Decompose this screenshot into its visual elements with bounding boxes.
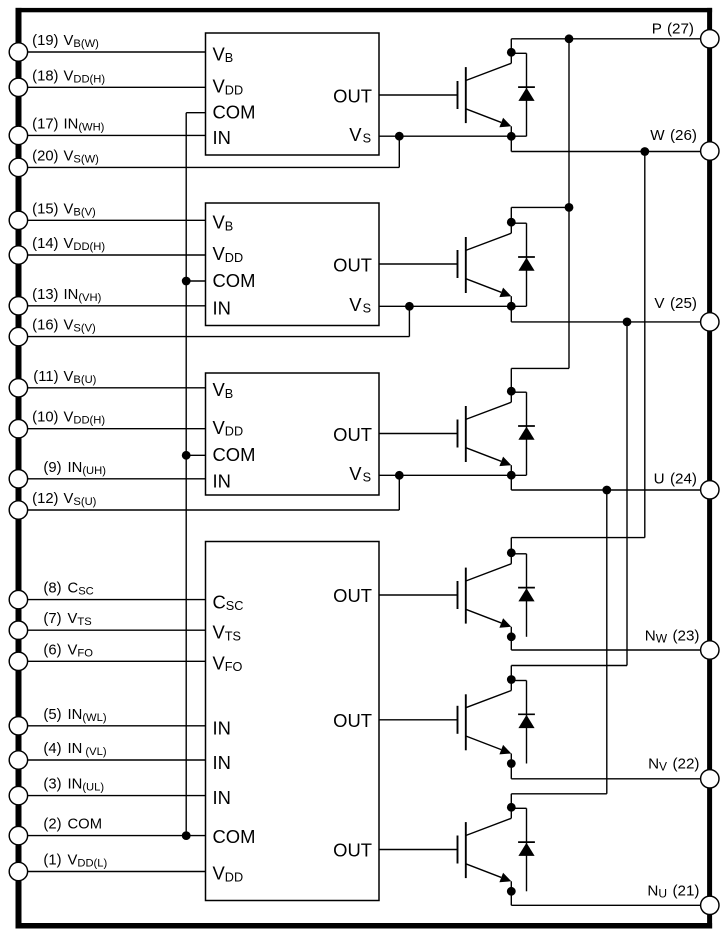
wire VB(V) lead (28, 219, 206, 221)
terminal pin 11 VB(U) (9, 379, 27, 397)
wire P bus drop (568, 39, 570, 369)
label pin 7 VTS (43, 611, 91, 628)
wire pin 4 lead (28, 759, 206, 761)
node W phase junction (640, 147, 649, 156)
svg-text:OUT: OUT (333, 585, 372, 606)
svg-text:(3): (3) (43, 777, 61, 793)
svg-text:(20): (20) (32, 148, 58, 164)
svg-text:(7): (7) (43, 611, 61, 627)
terminal pin 25 V (701, 313, 719, 331)
wire VS(V) lead (28, 336, 410, 338)
wire VS(W) riser (398, 136, 400, 167)
driver block U3 (U-phase high-side) (206, 373, 380, 495)
node COM bus to pin 2 junction (182, 831, 191, 840)
label pin 8 CSC (43, 581, 93, 598)
svg-text:(12): (12) (32, 491, 58, 507)
terminal pin 23 NW (701, 641, 719, 659)
svg-text:V (25): V (25) (654, 295, 697, 312)
label pin 14 VDD(H) (32, 236, 105, 253)
node COM bus junction (182, 277, 191, 286)
wire VDD(H) lead (28, 254, 206, 256)
driver block U1 (W-phase high-side) (206, 33, 380, 155)
terminal pin 6 VFO (9, 652, 27, 670)
label pin 4 IN (VL) (43, 741, 106, 758)
collector node of Q2 (507, 218, 516, 227)
terminal pin 2 COM (9, 826, 27, 844)
label pin 10 VDD(H) (32, 410, 105, 427)
svg-text:W (26): W (26) (650, 127, 697, 144)
terminal pin 19 VB(W) (9, 43, 27, 61)
wire VS of driver U2 to emitter of Q2 (379, 305, 527, 307)
label pin 13 IN(VH) (32, 287, 101, 304)
wire VB(U) lead (28, 387, 206, 389)
collector node of Q6 (507, 803, 516, 812)
node VS(W) junction (395, 132, 404, 141)
label pin 2 COM (43, 817, 102, 833)
collector node of Q3 (507, 387, 516, 396)
svg-text:(1): (1) (43, 853, 61, 869)
wire U phase drop to low-side collector (606, 490, 608, 794)
svg-text:(9): (9) (43, 460, 61, 476)
wire V phase drop to low-side collector (626, 322, 628, 666)
svg-text:(4): (4) (43, 741, 61, 757)
svg-text:IN: IN (213, 298, 231, 319)
wire NU output (511, 904, 700, 906)
wire COM of driver U3 to COM bus (186, 454, 205, 456)
svg-text:(11): (11) (33, 369, 58, 385)
wire P bus to Q3 collector (511, 367, 569, 369)
wire VS(U) riser (398, 475, 400, 510)
svg-text:(5): (5) (43, 707, 61, 723)
svg-text:(19): (19) (32, 33, 58, 49)
svg-text:IN: IN (213, 752, 231, 773)
wire VDD(H) lead (28, 86, 206, 88)
svg-text:(16): (16) (32, 318, 58, 334)
wire W phase drop to low-side collector (644, 152, 646, 538)
label pin 3 IN(UL) (43, 777, 104, 794)
wire U phase from Q3 emitter (510, 475, 512, 490)
svg-text:S: S (363, 302, 371, 316)
svg-text:OUT: OUT (333, 840, 372, 861)
svg-text:S: S (363, 471, 371, 485)
node P bus junction (565, 34, 574, 43)
label pin 5 IN(WL) (43, 707, 106, 724)
svg-text:IN: IN (213, 471, 231, 492)
label pin 16 VS(V) (32, 318, 96, 335)
wire OUT of driver U2 to gate of Q2 (379, 263, 458, 265)
wire OUT of driver U4 to gate of Q4 (379, 594, 458, 596)
wire OUT of driver U4 to gate of Q5 (379, 719, 458, 721)
wire OUT of driver U3 to gate of Q3 (379, 433, 458, 435)
terminal pin 16 VS(V) (9, 327, 27, 345)
transistor Q4 (458, 538, 512, 637)
wire pin 8 lead (28, 599, 206, 601)
node P bus to Q2 junction (565, 203, 574, 212)
svg-text:COM: COM (213, 270, 256, 291)
terminal pin 17 IN(WH) (9, 126, 27, 144)
svg-text:COM: COM (213, 826, 256, 847)
wire NV from Q5 emitter (510, 764, 512, 779)
wire VS(W) lead (28, 166, 400, 168)
terminal pin 10 VDD(H) (9, 420, 27, 438)
svg-text:IN: IN (213, 718, 231, 739)
wire VS of driver U1 to emitter of Q1 (379, 135, 527, 137)
collector node of Q5 (507, 675, 516, 684)
svg-text:IN: IN (213, 127, 231, 148)
svg-text:NW (23): NW (23) (645, 628, 700, 646)
wire U phase output (511, 489, 700, 491)
svg-text:NV (22): NV (22) (648, 756, 699, 774)
svg-text:V: V (349, 124, 362, 145)
svg-text:(18): (18) (32, 68, 58, 84)
wire IN(UH) lead (28, 478, 206, 480)
node V phase junction (623, 318, 632, 327)
wire COM of driver U1 to COM bus (186, 112, 205, 114)
label pin 18 VDD(H) (32, 68, 105, 85)
terminal pin 14 VDD(H) (9, 246, 27, 264)
terminal pin 20 VS(W) (9, 158, 27, 176)
diode D6 (511, 808, 535, 891)
wire COM of driver U2 to COM bus (186, 280, 205, 282)
terminal pin 22 NV (701, 770, 719, 788)
svg-text:V: V (349, 294, 362, 315)
terminal pin 4 IN (VL) (9, 751, 27, 769)
terminal pin 18 VDD(H) (9, 78, 27, 96)
svg-text:(15): (15) (32, 201, 58, 217)
label pin 15 VB(V) (32, 201, 96, 218)
wire NV output (511, 778, 700, 780)
wire VS of driver U3 to emitter of Q3 (379, 474, 527, 476)
terminal pin 8 CSC (9, 590, 27, 608)
label pin 11 VB(U) (33, 369, 96, 386)
svg-text:S: S (363, 132, 371, 146)
wire V phase output (511, 321, 700, 323)
wire pin 2 lead (28, 835, 206, 837)
driver block U4 (low-side) (206, 542, 380, 901)
terminal pin 3 IN(UL) (9, 786, 27, 804)
terminal pin 24 U (701, 481, 719, 499)
svg-text:COM: COM (213, 102, 256, 123)
label pin 17 IN(WH) (32, 116, 105, 133)
node VS(V) junction (405, 302, 414, 311)
svg-text:(17): (17) (32, 116, 58, 132)
svg-text:OUT: OUT (333, 710, 372, 731)
label pin 1 VDD(L) (43, 853, 107, 870)
svg-text:OUT: OUT (333, 424, 372, 445)
svg-text:U (24): U (24) (654, 471, 697, 488)
emitter node of Q4 (507, 632, 516, 641)
svg-text:P (27): P (27) (652, 21, 694, 38)
transistor Q5 (458, 666, 512, 764)
wire pin 3 lead (28, 795, 206, 797)
terminal pin 21 NU (701, 896, 719, 914)
node VS(U) junction (395, 471, 404, 480)
terminal pin 9 IN(UH) (9, 470, 27, 488)
wire VS(U) lead (28, 509, 400, 511)
wire VDD(H) lead (28, 428, 206, 430)
wire pin 5 lead (28, 725, 206, 727)
emitter node of Q6 (507, 887, 516, 896)
svg-text:(6): (6) (43, 642, 61, 658)
wire P bus (511, 38, 700, 40)
svg-text:V: V (349, 463, 362, 484)
terminal pin 26 W (701, 142, 719, 160)
terminal pin 13 IN(VH) (9, 297, 27, 315)
wire COM bus vertical (185, 113, 187, 836)
svg-text:OUT: OUT (333, 85, 372, 106)
label pin 12 VS(U) (32, 491, 96, 508)
wire NU from Q6 emitter (510, 891, 512, 905)
driver block U2 (V-phase high-side) (206, 203, 380, 326)
terminal pin 15 VB(V) (9, 211, 27, 229)
svg-text:COM: COM (68, 817, 103, 833)
wire pin 7 lead (28, 629, 206, 631)
transistor Q3 (458, 368, 512, 475)
svg-text:COM: COM (213, 444, 256, 465)
node COM bus junction (182, 451, 191, 460)
wire W phase output (511, 151, 700, 153)
terminal pin 5 IN(WL) (9, 717, 27, 735)
label pin 6 VFO (43, 642, 93, 659)
wire pin 1 lead (28, 871, 206, 873)
collector node of Q4 (507, 548, 516, 557)
emitter node of Q1 (507, 132, 516, 141)
diode D5 (511, 681, 535, 764)
terminal pin 27 P (701, 30, 719, 48)
transistor Q2 (458, 207, 512, 306)
emitter node of Q5 (507, 759, 516, 768)
svg-text:IN: IN (213, 787, 231, 808)
wire NW from Q4 emitter (510, 637, 512, 650)
wire VB(W) lead (28, 51, 206, 53)
label pin 19 VB(W) (32, 33, 99, 50)
emitter node of Q3 (507, 471, 516, 480)
svg-text:NU (21): NU (21) (647, 883, 699, 901)
diode D1 (511, 53, 535, 136)
label pin 9 IN(UH) (43, 460, 106, 477)
svg-text:(10): (10) (32, 410, 58, 426)
terminal pin 1 VDD(L) (9, 862, 27, 880)
wire OUT of driver U1 to gate of Q1 (379, 94, 458, 96)
transistor Q6 (458, 794, 512, 892)
wire W phase from Q1 emitter (510, 136, 512, 151)
node U phase junction (602, 486, 611, 495)
wire IN(WH) lead (28, 134, 206, 136)
svg-text:(13): (13) (32, 287, 58, 303)
diode D2 (511, 223, 535, 306)
label pin 20 VS(W) (32, 148, 99, 165)
transistor Q1 (458, 39, 512, 137)
diode D3 (511, 392, 535, 475)
svg-text:(2): (2) (43, 817, 61, 833)
wire pin 6 lead (28, 660, 206, 662)
wire VS(V) riser (408, 306, 410, 336)
terminal pin 12 VS(U) (9, 501, 27, 519)
svg-text:(14): (14) (32, 236, 58, 252)
collector node of Q1 (507, 48, 516, 57)
wire V phase from Q2 emitter (510, 306, 512, 322)
diode D4 (511, 554, 535, 637)
wire NW output (511, 649, 700, 651)
wire P bus to Q2 collector (511, 206, 569, 208)
svg-text:OUT: OUT (333, 254, 372, 275)
wire OUT of driver U4 to gate of Q6 (379, 849, 458, 851)
svg-text:(8): (8) (43, 581, 61, 597)
terminal pin 7 VTS (9, 621, 27, 639)
wire IN(VH) lead (28, 305, 206, 307)
emitter node of Q2 (507, 302, 516, 311)
